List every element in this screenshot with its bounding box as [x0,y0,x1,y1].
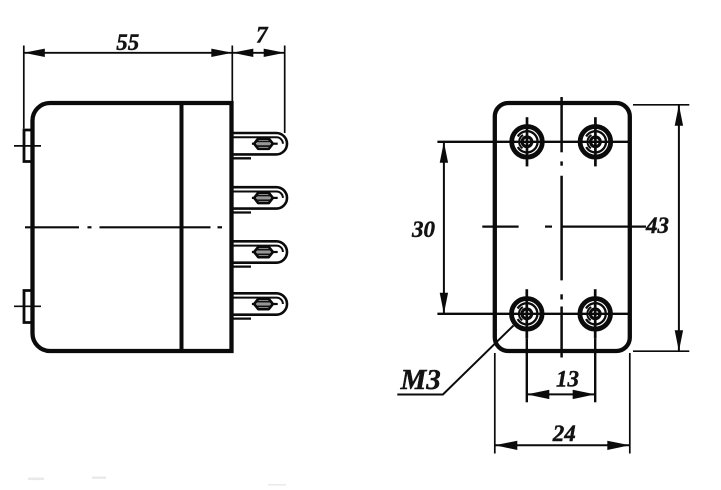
front view vertical centerline [560,97,563,358]
screw bottom-left [512,289,543,338]
dimension 55 line with arrows [24,49,233,57]
terminal blade 1 [234,133,288,158]
dimension 24 extension lines [495,353,630,454]
relay front view outline [495,103,630,351]
screw top-left [512,117,543,166]
svg-text:43: 43 [645,213,669,238]
svg-text:55: 55 [116,30,139,55]
screw bottom-right [580,289,611,338]
top screw row centerline [437,141,629,143]
svg-text:7: 7 [256,23,269,48]
body internal parting line [180,103,184,351]
svg-text:30: 30 [411,217,436,242]
bottom screw row centerline [437,313,629,315]
front view horizontal centerline [482,226,646,228]
dimension 43 line with arrows [675,105,683,351]
mounting tab lower [14,291,41,323]
faint scan artifacts bottom-left [28,477,286,486]
screw column extension lines for 13 [527,339,595,403]
terminal blade 3 [234,241,288,266]
dimension 7 extension line [284,46,286,134]
dimension 30 line with arrows [440,142,448,314]
svg-text:24: 24 [552,421,576,446]
dimension 13 line with arrows [527,390,595,399]
svg-text:13: 13 [556,366,579,391]
dimension 7 line with arrows [232,49,284,57]
terminal blade 2 [234,187,288,212]
side view axis centerline [25,226,222,228]
M3 leader line [397,326,513,395]
svg-text:M3: M3 [400,364,441,396]
relay body side view outline [33,103,232,351]
terminal blade 4 [234,293,288,318]
dimension 24 line with arrows [495,441,630,450]
mounting tab upper [14,130,41,162]
dimension 43 extension lines [633,105,689,351]
dimension 55 extension lines [24,46,233,129]
screw top-right [580,117,611,166]
